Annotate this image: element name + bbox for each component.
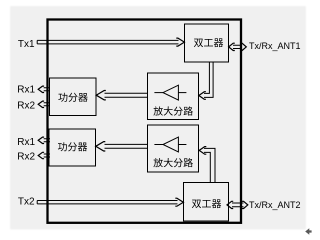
arrowhead into U5 right [96, 142, 106, 151]
svg-text:Tx/Rx_ANT1: Tx/Rx_ANT1 [249, 41, 301, 51]
wire U6 to U5 (hollow) [105, 144, 148, 148]
module outline box [48, 20, 242, 223]
arrowhead ANT1 left into U1 [229, 43, 235, 50]
svg-text:Rx1: Rx1 [17, 85, 35, 96]
label 双工器 U4 [192, 200, 201, 208]
wire Rx1 out of U5 [44, 139, 50, 142]
wire Rx1 out of U2 [44, 88, 50, 91]
label 放大分路 U6 [153, 158, 162, 167]
arrowhead ANT2 left into U4 [227, 201, 233, 208]
wire U3 to U2 (hollow) [105, 93, 148, 97]
wire U1 down-left to U3 (hollow elbow) [204, 62, 213, 97]
svg-text:Rx1: Rx1 [17, 137, 35, 148]
wire U4 up-left to U6 (hollow elbow) [204, 148, 215, 182]
label 放大分路 U3 [153, 106, 162, 115]
amplifier symbol in U6 [163, 137, 178, 152]
wire Tx1 to U1 (hollow) [37, 40, 178, 44]
label 功分器 U2 [58, 93, 67, 102]
arrowhead ANT1 right external [241, 43, 247, 50]
svg-text:Tx1: Tx1 [18, 39, 35, 50]
label 功分器 U5 [58, 142, 67, 151]
duplexer U4 box [184, 183, 229, 222]
arrowhead ANT2 right external [242, 201, 248, 208]
wire Tx/Rx_ANT2 bidirectional [232, 203, 244, 207]
power divider U2 box [50, 78, 97, 116]
amplifier splitter U3 box [148, 73, 199, 120]
wire Rx2 out of U2 [44, 103, 50, 106]
amplifier splitter U6 box [148, 125, 199, 172]
svg-text:Tx/Rx_ANT2: Tx/Rx_ANT2 [249, 200, 301, 210]
amplifier symbol in U3 [163, 85, 178, 100]
label 双工器 U1 [194, 39, 203, 47]
wire Rx2 out of U5 [44, 154, 50, 157]
arrowhead into U2 right [96, 91, 106, 100]
wire Tx/Rx_ANT1 bidirectional [233, 45, 242, 48]
duplexer U1 box [185, 24, 229, 62]
arrowhead Tx1 into U1 [176, 38, 184, 46]
power divider U5 box [49, 129, 96, 166]
arrowhead into U6 right [199, 147, 206, 155]
wire Tx2 to U4 (hollow) [37, 201, 177, 204]
cursor arrow mark [305, 228, 311, 234]
arrowhead into U3 right [199, 92, 206, 100]
svg-text:Rx2: Rx2 [17, 151, 35, 162]
arrowhead Tx2 into U4 [175, 198, 183, 206]
svg-text:Tx2: Tx2 [18, 196, 35, 207]
svg-text:Rx2: Rx2 [17, 100, 35, 111]
